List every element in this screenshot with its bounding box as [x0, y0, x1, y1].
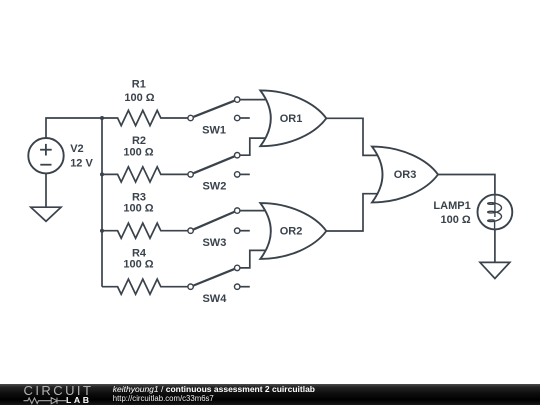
- svg-text:100 Ω: 100 Ω: [440, 214, 470, 226]
- svg-text:R1: R1: [132, 78, 146, 90]
- svg-text:12 V: 12 V: [70, 158, 93, 170]
- svg-text:LAMP1: LAMP1: [433, 200, 470, 212]
- svg-text:SW4: SW4: [202, 293, 227, 305]
- svg-text:R3: R3: [132, 191, 146, 203]
- svg-text:100 Ω: 100 Ω: [124, 92, 154, 104]
- svg-text:100 Ω: 100 Ω: [123, 259, 153, 271]
- svg-text:100 Ω: 100 Ω: [123, 203, 153, 215]
- svg-text:OR2: OR2: [280, 226, 303, 238]
- svg-text:100 Ω: 100 Ω: [123, 146, 153, 158]
- svg-text:SW2: SW2: [202, 181, 226, 193]
- svg-text:V2: V2: [70, 143, 83, 155]
- svg-text:SW1: SW1: [202, 124, 226, 136]
- svg-text:SW3: SW3: [202, 237, 226, 249]
- svg-text:OR3: OR3: [394, 169, 417, 181]
- svg-text:R2: R2: [132, 135, 146, 147]
- svg-text:OR1: OR1: [280, 113, 303, 125]
